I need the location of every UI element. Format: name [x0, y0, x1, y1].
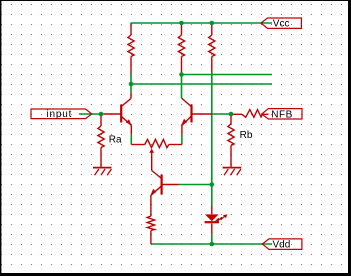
svg-text:Vcc: Vcc: [273, 19, 290, 30]
ground below Ra: [93, 168, 112, 176]
resistor R4 bottom: [147, 216, 154, 244]
flag input: [31, 109, 92, 120]
potentiometer between emitters: [131, 139, 182, 170]
LED triangle: [205, 214, 219, 221]
transistor Q3: [151, 171, 179, 217]
wire stub from R2 bottom: [182, 74, 273, 76]
resistor R3: [209, 23, 215, 73]
border frame: [0, 0, 351, 1]
wire Q2 emitter drop: [181, 134, 183, 144]
junction dot NFB node: [229, 112, 234, 117]
transistor Q3 emitter arrow: [151, 189, 157, 195]
svg-text:Vdd: Vdd: [273, 240, 291, 251]
junction dot R1 bottom: [129, 82, 134, 87]
wire input net: [79, 113, 103, 115]
resistor Ra: [98, 114, 104, 167]
svg-text:NFB: NFB: [271, 109, 293, 120]
LED D1: [205, 206, 219, 235]
wire R2 bottom to Q2 collector: [181, 75, 183, 99]
svg-text:input: input: [47, 109, 73, 120]
flag Vcc: [261, 18, 301, 30]
resistor to NFB: [231, 110, 269, 118]
junction dot input node: [99, 112, 104, 117]
wire LED cathode to bottom rail: [211, 234, 213, 244]
junction dot top R3: [210, 21, 215, 26]
flag NFB: [262, 109, 302, 121]
ground below Rb: [223, 168, 242, 176]
junction dot LED bottom node: [210, 242, 215, 247]
resistor Rb: [228, 114, 234, 167]
svg-text:Ra: Ra: [109, 135, 122, 146]
wire Q3 base net: [179, 184, 212, 186]
wire stub from R1 bottom: [131, 83, 272, 85]
svg-text:Rb: Rb: [240, 130, 253, 141]
junction dot Q3 base node: [210, 182, 215, 187]
transistor Q2: [182, 98, 212, 134]
wire right column R3 to LED: [211, 73, 213, 206]
wire R1 bottom segment: [130, 74, 132, 93]
transistor Q2 emitter arrow: [182, 119, 188, 125]
wire Vcc top rail: [131, 22, 272, 24]
wire Q1 emitter drop: [130, 134, 132, 144]
transistor Q1: [103, 93, 131, 134]
LED light squiggle arrow: [215, 214, 228, 222]
wire Q2 base to NFB node: [212, 113, 231, 115]
junction dot R2 bottom: [179, 72, 184, 77]
junction dot top R2: [179, 21, 184, 26]
resistor R1: [128, 23, 134, 74]
potentiometer wiper arrow: [149, 149, 154, 153]
flag Vdd: [262, 239, 302, 251]
transistor Q1 emitter arrow: [126, 119, 132, 125]
wire Vdd bottom rail: [151, 243, 272, 245]
resistor R2: [178, 23, 184, 75]
